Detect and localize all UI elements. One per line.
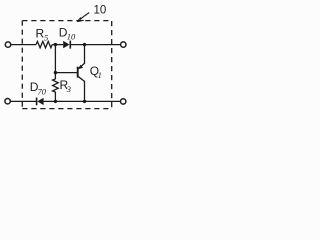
dashed box left edge — [21, 21, 23, 109]
resistor R5 — [36, 41, 52, 47]
node junction base wire — [54, 71, 57, 74]
svg-text:1: 1 — [98, 70, 102, 80]
transistor Q1 — [78, 45, 85, 102]
wire R3 to bottom rail — [54, 92, 56, 101]
node junction collector/bottom rail — [83, 100, 86, 103]
wire top rail right — [70, 44, 120, 46]
node junction R3/bottom rail — [54, 100, 57, 103]
node junction emitter/top rail — [83, 43, 86, 46]
diode D70 — [37, 98, 44, 106]
label D10 — [59, 25, 76, 41]
terminal top-right — [121, 42, 126, 47]
svg-text:70: 70 — [38, 86, 47, 96]
svg-text:10: 10 — [67, 32, 76, 42]
wire bottom rail right — [44, 100, 121, 102]
dashed box right edge — [111, 21, 113, 109]
wire top rail left — [11, 44, 36, 46]
label Q1 — [90, 64, 102, 80]
wire bottom rail left — [10, 100, 36, 102]
wire top rail middle — [52, 44, 63, 46]
terminal bottom-right — [121, 99, 126, 104]
terminal top-left — [5, 42, 10, 47]
label R3 — [60, 78, 72, 94]
dashed box bottom edge — [22, 108, 111, 110]
svg-text:3: 3 — [66, 84, 71, 94]
wire vertical node to R3 — [54, 45, 56, 79]
wire base lead — [55, 72, 77, 74]
dashed box top edge — [22, 20, 112, 22]
svg-text:10: 10 — [94, 5, 107, 17]
node junction R5/R3 — [54, 43, 57, 46]
resistor R3 — [53, 79, 59, 92]
terminal bottom-left — [5, 99, 10, 104]
diode D10 — [63, 41, 70, 49]
label D70 — [30, 80, 47, 96]
svg-text:5: 5 — [44, 33, 48, 43]
label 10 leader arrow — [77, 13, 89, 22]
label R5 — [36, 27, 49, 43]
